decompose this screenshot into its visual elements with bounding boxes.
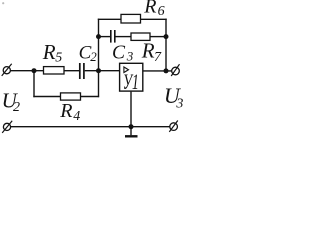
right feedback vertical wire [165, 19, 167, 71]
stray speck top-left [2, 2, 4, 4]
wire R5 to C2 [64, 70, 79, 72]
resistor R6 [121, 14, 141, 23]
svg-text:R: R [143, 0, 156, 17]
capacitor C2 [80, 63, 84, 79]
svg-text:У1: У1 [123, 69, 139, 94]
ground [125, 127, 138, 137]
resistor R5 [44, 67, 65, 74]
svg-text:7: 7 [154, 50, 162, 65]
wire input to node A [10, 70, 43, 72]
resistor R7 [131, 33, 150, 40]
feedback left vertical wire [98, 19, 100, 98]
bottom-right terminal [169, 121, 178, 132]
top feedback wire right [141, 18, 167, 20]
wire amplifier output [143, 70, 172, 72]
svg-text:6: 6 [158, 4, 165, 19]
svg-text:2: 2 [90, 49, 97, 64]
amplifier bottom wire to rail [130, 92, 132, 127]
wire C2 to amplifier input [85, 70, 120, 72]
svg-text:3: 3 [126, 48, 134, 63]
svg-text:R: R [141, 39, 155, 63]
svg-text:3: 3 [175, 96, 183, 111]
output terminal (top right) [171, 64, 179, 76]
output node junction [164, 68, 169, 73]
bottom rail wire [11, 126, 170, 128]
svg-text:4: 4 [73, 109, 80, 124]
node C junction [96, 34, 101, 39]
op-amp U1 box [120, 63, 143, 91]
top feedback wire left [98, 18, 121, 20]
capacitor C3 [111, 30, 115, 43]
svg-text:R: R [59, 100, 72, 122]
R4 row wire left [33, 96, 60, 98]
svg-text:R: R [42, 40, 56, 64]
node D junction [164, 34, 169, 39]
input terminal (top left) [2, 64, 12, 76]
R4 row wire right [81, 96, 100, 98]
node B junction [96, 68, 101, 73]
row2 wire to C3 [99, 36, 111, 38]
svg-text:C: C [112, 42, 126, 63]
wire C3 to R7 [116, 36, 132, 38]
wire R7 to right vertical [150, 36, 166, 38]
svg-text:2: 2 [13, 100, 20, 115]
node A junction [32, 68, 37, 73]
node A vertical wire down [33, 71, 35, 98]
svg-text:5: 5 [55, 51, 62, 66]
bottom-left terminal [2, 121, 12, 133]
rail junction [129, 124, 134, 129]
amplifier direction triangle [124, 67, 129, 73]
resistor R4 [61, 93, 81, 100]
